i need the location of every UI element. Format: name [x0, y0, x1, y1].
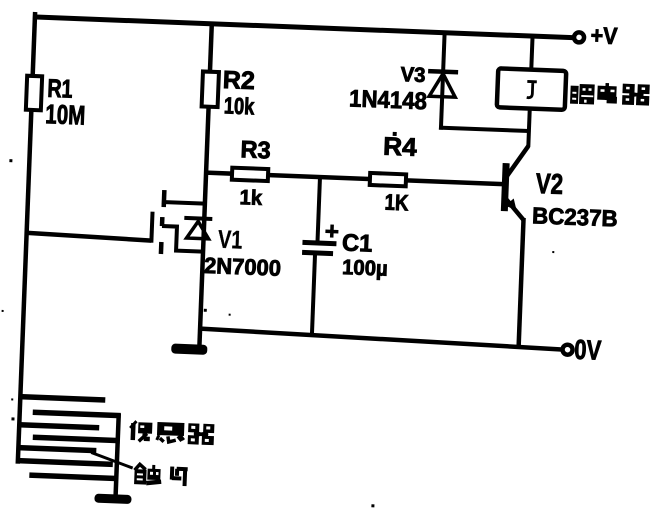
- svg-text:1N4148: 1N4148: [349, 85, 428, 115]
- svg-text:0V: 0V: [574, 334, 602, 366]
- V2 emitter vertical wire: [519, 218, 524, 349]
- V1 drain stub: [162, 202, 205, 204]
- svg-text:10M: 10M: [45, 99, 86, 131]
- svg-text:R4: R4: [383, 133, 418, 162]
- wire middle vertical (R2 / V1 drain-source column): [199, 24, 211, 348]
- label CJK PIAN: [172, 467, 188, 487]
- noise dots: [0, 159, 557, 514]
- sensor comb left finger 4: [18, 461, 113, 465]
- svg-text:BC237B: BC237B: [532, 202, 618, 232]
- terminal +V circle: [574, 32, 584, 42]
- C1 plus sign: [325, 224, 338, 237]
- resistor R2: [202, 71, 219, 107]
- svg-text:2N7000: 2N7000: [204, 253, 282, 281]
- svg-text:10k: 10k: [223, 93, 255, 120]
- resistor R3: [232, 168, 268, 181]
- label sensor CJK CHUAN: [130, 421, 153, 442]
- svg-text:R2: R2: [222, 66, 255, 95]
- V1 gate bar: [151, 212, 152, 243]
- diode V3 triangle: [429, 73, 456, 97]
- label relay CJK JI: [570, 84, 595, 105]
- wire diode to relay lead: [439, 128, 529, 131]
- ground symbol sensor: [94, 494, 131, 504]
- sensor comb right finger 2: [33, 437, 120, 440]
- relay J letter: [527, 81, 537, 98]
- sensor comb right finger 3: [29, 475, 116, 478]
- svg-text:1K: 1K: [384, 190, 409, 216]
- V2 collector diagonal: [506, 145, 528, 178]
- resistor R1: [26, 76, 42, 111]
- svg-text:V2: V2: [535, 168, 563, 200]
- diode V3 branch wire: [441, 33, 445, 130]
- V1 channel segment bottom: [159, 242, 164, 254]
- relay coil box: [497, 68, 566, 110]
- noise dot above R4: [393, 132, 397, 136]
- label sensor CJK GAN: [157, 422, 185, 443]
- transistor V2 base bar: [501, 163, 510, 211]
- sensor comb left finger 1: [19, 397, 105, 400]
- sensor comb left finger 3: [18, 448, 96, 451]
- diode V3 cathode bar: [428, 71, 458, 72]
- svg-text:1k: 1k: [239, 186, 263, 210]
- label CJK CHU: [134, 464, 162, 485]
- resistor R4: [370, 173, 406, 186]
- label sensor CJK QI: [188, 423, 215, 445]
- V1 channel segment top: [161, 190, 166, 207]
- terminal 0V circle: [562, 345, 572, 355]
- C1 stem bottom: [312, 253, 315, 337]
- svg-text:100µ: 100µ: [342, 256, 388, 281]
- V2 emitter arrow: [505, 198, 517, 210]
- relay bottom lead: [528, 107, 530, 147]
- wire left vertical column: [18, 12, 35, 464]
- svg-text:V1: V1: [217, 224, 243, 254]
- sensor comb right finger 1: [33, 412, 121, 415]
- V1 source path: [161, 226, 204, 252]
- svg-text:+V: +V: [590, 22, 618, 49]
- relay top lead: [531, 36, 532, 71]
- svg-text:C1: C1: [342, 229, 373, 257]
- sensor right rail: [116, 414, 119, 498]
- label relay CJK DIAN: [597, 83, 617, 102]
- V1 body diode cathode bar: [184, 218, 212, 219]
- transistor V1 (2N7000 MOSFET) gate wire: [28, 233, 152, 241]
- svg-text:V3: V3: [400, 63, 426, 87]
- capacitor C1 stem top: [317, 177, 320, 243]
- V1 body diode triangle: [187, 221, 210, 239]
- C1 bottom plate: [302, 252, 333, 253]
- wire bottom rail 0V: [198, 328, 562, 349]
- label relay CJK QI: [622, 84, 650, 106]
- ground symbol V1 source: [171, 343, 207, 354]
- wire R3-R4 row: [206, 173, 503, 184]
- pointer line to touch plate: [91, 452, 134, 468]
- V1 channel segment middle: [160, 217, 165, 226]
- svg-text:R3: R3: [240, 136, 271, 164]
- C1 top plate: [302, 242, 336, 243]
- sensor comb left finger 2: [19, 425, 99, 428]
- V2 emitter diagonal: [505, 198, 525, 220]
- wire top rail +V: [33, 17, 573, 38]
